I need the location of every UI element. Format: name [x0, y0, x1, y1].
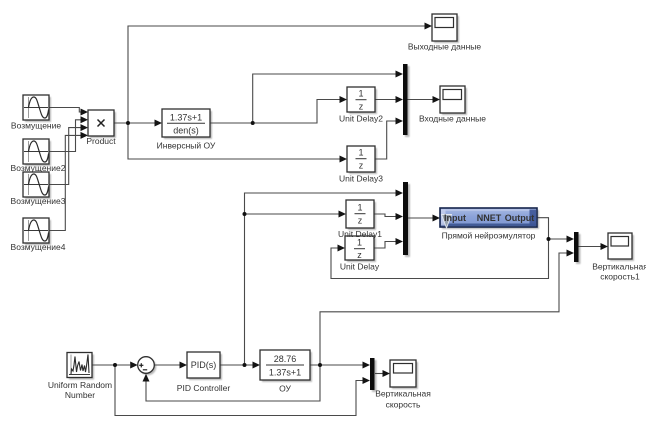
svg-text:Unit Delay3: Unit Delay3: [339, 174, 383, 184]
svg-text:z: z: [359, 161, 364, 171]
svg-text:z: z: [358, 216, 363, 226]
svg-text:Входные данные: Входные данные: [419, 114, 486, 124]
svg-text:1.37s+1: 1.37s+1: [269, 368, 301, 378]
svg-text:Uniform Random: Uniform Random: [48, 380, 112, 390]
svg-text:NNET: NNET: [477, 213, 502, 223]
svg-text:Output: Output: [505, 213, 535, 223]
svg-text:PID Controller: PID Controller: [177, 383, 231, 393]
svg-text:1: 1: [358, 148, 363, 158]
svg-text:1: 1: [357, 238, 362, 248]
svg-text:den(s): den(s): [173, 126, 199, 136]
svg-text:Выходные данные: Выходные данные: [408, 42, 482, 52]
svg-text:ОУ: ОУ: [279, 384, 291, 394]
svg-text:1: 1: [358, 89, 363, 99]
svg-text:PID(s): PID(s): [191, 360, 217, 370]
svg-text:Вертикальная: Вертикальная: [592, 262, 646, 272]
svg-text:28.76: 28.76: [274, 354, 297, 364]
svg-text:Возмущение2: Возмущение2: [11, 163, 66, 173]
svg-text:скорость: скорость: [386, 400, 421, 410]
svg-text:скорость1: скорость1: [600, 272, 640, 282]
svg-text:Прямой нейроэмулятор: Прямой нейроэмулятор: [442, 231, 536, 241]
svg-text:Unit Delay1: Unit Delay1: [338, 229, 382, 239]
svg-text:1: 1: [357, 203, 362, 213]
svg-text:Возмущение: Возмущение: [11, 121, 61, 131]
svg-text:Инверсный ОУ: Инверсный ОУ: [157, 141, 216, 151]
svg-text:Вертикальная: Вертикальная: [375, 389, 431, 399]
svg-text:Input: Input: [444, 213, 466, 223]
svg-text:1.37s+1: 1.37s+1: [170, 113, 202, 123]
svg-text:Unit Delay2: Unit Delay2: [339, 114, 383, 124]
svg-text:Product: Product: [86, 136, 116, 146]
svg-text:z: z: [359, 102, 364, 112]
svg-text:Возмущение4: Возмущение4: [11, 242, 66, 252]
svg-text:z: z: [357, 250, 362, 260]
svg-text:Unit Delay: Unit Delay: [340, 262, 380, 272]
svg-text:Возмущение3: Возмущение3: [11, 196, 66, 206]
svg-text:Number: Number: [65, 390, 95, 400]
